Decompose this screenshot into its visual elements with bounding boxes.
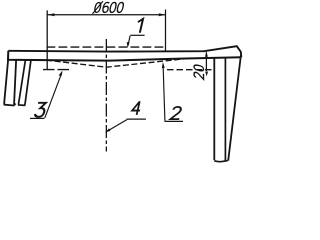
label 4 underline (127, 118, 146, 120)
label 2 leader line (163, 65, 165, 121)
label 4 leader line (107, 120, 127, 132)
dimension 20 dimension line (205, 52, 207, 71)
label 1 underline (130, 34, 144, 36)
label 1 leader arrowhead (127, 42, 130, 48)
dimension value text 20 (rotated) (194, 64, 204, 79)
front-left leg (4, 60, 16, 106)
dimension Ø600 right arrowhead (159, 13, 166, 16)
label digit 2 (deflected surface) (170, 107, 182, 119)
dimension 20 top arrowhead (at top surface) (205, 52, 208, 57)
front-right leg bottom edge (214, 161, 227, 162)
label 4 leader arrowhead (105, 128, 110, 132)
dimension 20 bottom arrowhead (below dashed reference) (205, 72, 208, 77)
dimension Ø600 right extension line (165, 10, 167, 52)
rear-right leg (slanted line from slab right corner) (228, 55, 241, 161)
dimension value text Ø600 (92, 1, 124, 14)
label 3 underline (30, 117, 44, 119)
tabletop slab top surface line (raised right edge) (8, 46, 241, 57)
front-right leg right edge (224, 58, 226, 161)
dashed line: deflected underside V (target of label 2) (46, 58, 190, 67)
front-right leg left edge (213, 57, 215, 160)
dashed lower reference line, left segment (target of label 3) (43, 69, 71, 71)
dimension Ø600 left arrowhead (48, 13, 55, 16)
label digit 4 (table axis) (131, 101, 142, 115)
label digit 3 (lower reference line) (34, 103, 46, 117)
dashed line: nominal top plane (target of label 1) (47, 46, 166, 48)
centerline table axis (target of label 4) (105, 39, 107, 152)
label 3 leader arrowhead (59, 71, 63, 77)
dimension Ø600 dimension line (48, 14, 166, 16)
label 3 leader line (45, 73, 62, 118)
tabletop slab bottom surface line and left end edge (8, 51, 241, 61)
label 2 underline (165, 120, 184, 122)
label 2 leader arrowhead (162, 62, 165, 68)
dimension Ø600 left extension line (46, 10, 48, 70)
dashed lower reference line, right segment (base of dim 20) (167, 69, 214, 71)
label 1 leader line (128, 36, 130, 45)
label digit 1 (tabletop nominal plane) (135, 19, 143, 33)
rear-left leg (19, 60, 31, 105)
